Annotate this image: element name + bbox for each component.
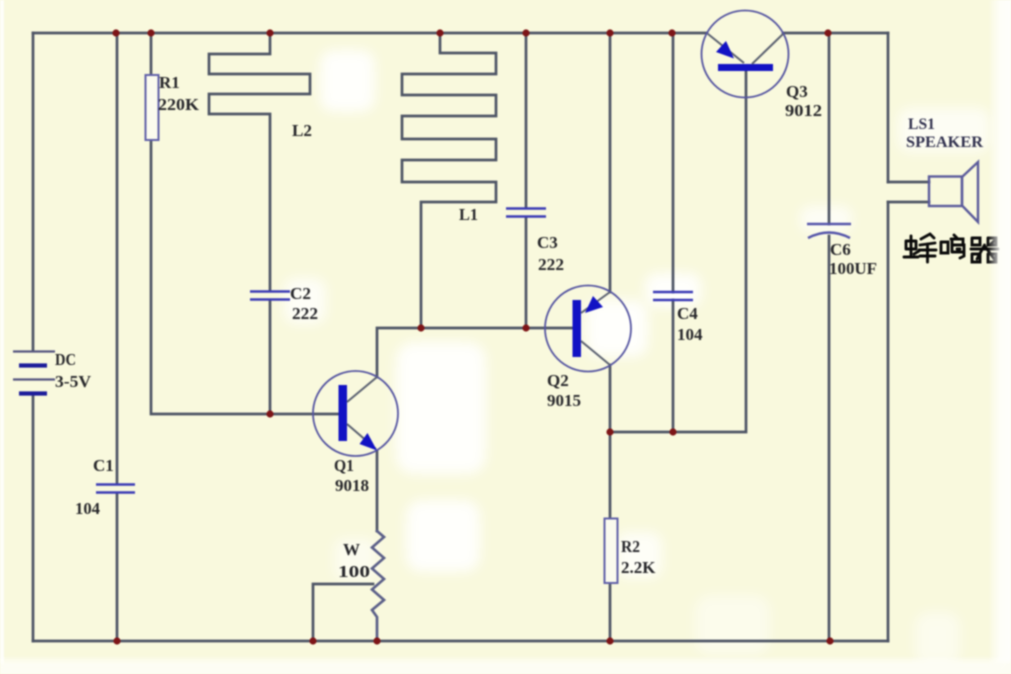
svg-text:W: W (343, 540, 360, 559)
svg-text:3-5V: 3-5V (55, 372, 92, 391)
char qi mouths bottom (972, 254, 996, 262)
char feng left radical (904, 236, 919, 257)
transistor Q1 (313, 371, 398, 456)
node top R1 (147, 29, 154, 36)
inductor L2 (209, 33, 310, 291)
wire top rail right part (783, 32, 888, 35)
white patch right of W (406, 500, 480, 572)
node C3 bottom (522, 324, 529, 331)
char ming mouth (941, 242, 948, 253)
wire R2 bottom lead (609, 583, 612, 641)
white glow W labels (334, 538, 376, 580)
wire R1 top lead (150, 33, 153, 76)
node base Q1 (266, 410, 273, 417)
wire right edge upper (887, 33, 890, 182)
buzzer label (Chinese 蜂鸣器) (904, 234, 998, 262)
battery B1 DC 3-5V (13, 352, 55, 394)
svg-text:C4: C4 (677, 304, 698, 323)
svg-text:L2: L2 (292, 121, 312, 140)
capacitor C1 (96, 485, 135, 493)
wire C3 upper lead (525, 33, 528, 208)
wire C2 lower lead (269, 300, 272, 414)
wire right edge lower (887, 202, 890, 641)
svg-text:LS1: LS1 (908, 116, 935, 133)
node top C4 (668, 29, 675, 36)
char ming bird (951, 235, 964, 258)
capacitor C6 (electrolytic) (807, 224, 851, 238)
node bottom R2 (606, 637, 613, 644)
char qi center dog (971, 241, 998, 260)
wire left edge (battery branch) lower (32, 394, 35, 641)
svg-text:L1: L1 (459, 205, 478, 224)
wire C1 branch lower (116, 493, 119, 641)
svg-text:9015: 9015 (547, 391, 581, 410)
svg-text:9012: 9012 (785, 101, 822, 120)
potentiometer W zigzag (372, 531, 384, 641)
wire R1 bottom lead to Q1 base (151, 140, 339, 414)
capacitor C3 (506, 209, 546, 217)
transistor Q3 (702, 11, 789, 98)
wire W wiper (313, 584, 373, 641)
white patch near C4 (645, 273, 701, 307)
char qi mouths top (972, 238, 996, 245)
white patch near C6 (800, 206, 852, 232)
capacitor C2 (250, 292, 290, 300)
wire left edge (battery branch) upper (32, 33, 35, 351)
svg-text:R2: R2 (621, 537, 640, 556)
wire Q1 emitter down (376, 451, 379, 531)
wire C4 upper lead (672, 33, 675, 292)
wire Q2 emitter to top rail (609, 33, 612, 292)
wire R2 top lead (609, 432, 612, 519)
char feng right part (919, 234, 936, 262)
node L1 bottom (417, 324, 424, 331)
wire C6 lower lead (828, 236, 831, 641)
wire Q1 collector to Q2 base (377, 328, 573, 377)
capacitor C4 (653, 292, 693, 300)
faint patch right of R2 bottom (695, 595, 770, 655)
inductor L1 (402, 33, 496, 328)
node bottom C6 (826, 637, 833, 644)
svg-text:104: 104 (75, 499, 100, 518)
white glow C2 labels (284, 278, 326, 324)
wire bottom rail (33, 640, 888, 643)
wire speaker bottom lead (888, 201, 929, 204)
wire C6 upper lead (828, 33, 831, 224)
svg-text:9018: 9018 (335, 476, 369, 495)
white patch right of Q1 (396, 342, 486, 474)
svg-text:C1: C1 (93, 456, 114, 475)
svg-text:Q1: Q1 (334, 456, 354, 475)
node top C1 (112, 29, 119, 36)
svg-text:SPEAKER: SPEAKER (906, 134, 983, 151)
faint patch bottom right (915, 612, 960, 667)
node Q2 collector (606, 428, 613, 435)
node top L2 (266, 29, 273, 36)
white patch near L2 (320, 50, 375, 112)
svg-text:100: 100 (338, 562, 370, 581)
svg-text:C3: C3 (537, 233, 558, 252)
white glow LS1/SPEAKER (898, 108, 990, 152)
wire C3 lower lead (525, 217, 528, 328)
svg-text:222: 222 (538, 255, 564, 274)
node top Q2e (606, 29, 613, 36)
node bottom C1 (113, 637, 120, 644)
wire Q2 collector down (609, 365, 612, 432)
svg-text:Q2: Q2 (547, 371, 569, 390)
svg-text:C2: C2 (290, 284, 311, 303)
white glow R2 labels (616, 532, 662, 578)
node bottom wiper (309, 637, 316, 644)
wire C1 branch upper (116, 33, 119, 484)
transistor Q2 (545, 286, 631, 372)
svg-text:R1: R1 (159, 73, 180, 92)
node top C3 (522, 29, 529, 36)
node C4 bottom (669, 428, 676, 435)
resistor R1 (146, 75, 159, 140)
svg-text:100UF: 100UF (829, 259, 877, 278)
speaker LS1 symbol (929, 162, 978, 222)
white patch at Q2 (586, 300, 648, 357)
node top C6 (824, 29, 831, 36)
svg-text:104: 104 (677, 325, 703, 344)
svg-text:C6: C6 (830, 240, 851, 259)
svg-text:DC: DC (55, 350, 76, 369)
wire top rail left part (33, 32, 707, 35)
svg-text:2.2K: 2.2K (621, 558, 656, 577)
resistor R2 (605, 519, 618, 584)
wire speaker top lead (888, 181, 929, 184)
node bottom W (373, 637, 380, 644)
wire collector node to Q3 base (610, 70, 746, 432)
node top L1 (436, 29, 443, 36)
svg-text:222: 222 (292, 304, 318, 323)
svg-text:220K: 220K (158, 95, 200, 114)
wire C4 lower lead (672, 300, 675, 432)
svg-text:Q3: Q3 (786, 82, 808, 101)
